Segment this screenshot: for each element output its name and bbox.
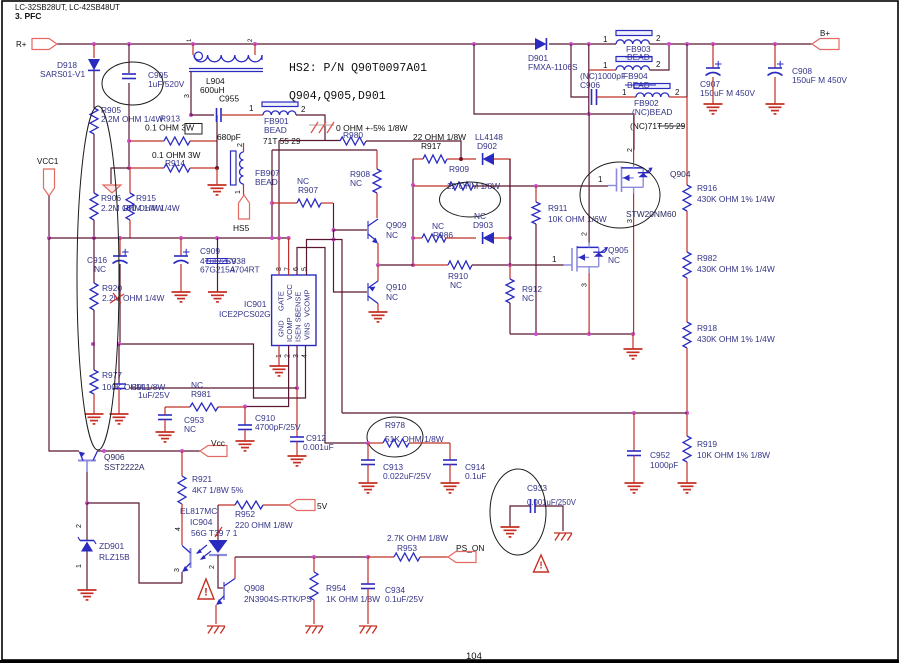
wire Q910 collector up (377, 265, 379, 281)
wire R907 to base column (333, 203, 335, 230)
wire bus to C905 (128, 44, 130, 73)
title model text (15, 3, 120, 12)
label C910 value (255, 422, 301, 432)
svg-text:C955: C955 (219, 94, 239, 104)
capacitor C914 (443, 460, 457, 465)
label C952 (650, 450, 670, 460)
svg-text:3: 3 (582, 283, 589, 287)
svg-text:5V: 5V (317, 501, 328, 511)
label R915 (136, 193, 156, 203)
label PS_ON (456, 543, 484, 553)
svg-text:4K7 1/8W 5%: 4K7 1/8W 5% (192, 485, 244, 495)
wire top bus L904 to D901 (193, 43, 536, 45)
svg-text:2.7K OHM 1/8W: 2.7K OHM 1/8W (387, 533, 448, 543)
wire net y150 (272, 149, 377, 151)
svg-text:1: 1 (598, 175, 603, 184)
wire bus x217 to ground (217, 238, 219, 292)
label R981 (191, 389, 211, 399)
svg-text:3. PFC: 3. PFC (15, 11, 41, 21)
junction VCC1 bus (47, 236, 51, 240)
svg-text:R914: R914 (165, 158, 185, 168)
svg-text:2: 2 (301, 105, 306, 114)
label R905 value (101, 114, 163, 124)
label RLZ15B (99, 552, 130, 562)
wire bus to FB904 (588, 44, 590, 114)
junction bus x181 (179, 236, 183, 240)
wire C910 gnd (244, 430, 246, 442)
label R917 value (413, 132, 466, 142)
label SARS01-V1 (40, 69, 85, 79)
label R920 value (102, 293, 164, 303)
wire pin6 route (297, 248, 368, 444)
svg-text:2: 2 (675, 88, 680, 97)
FB903 core box (616, 31, 652, 36)
wire ZD901 top (86, 503, 88, 540)
wire C953 stub (164, 407, 166, 415)
pin 2 L904 (248, 38, 254, 42)
junction vins x93 (91, 342, 95, 346)
capacitor C909 (174, 249, 190, 264)
label 5V (317, 501, 328, 511)
junction bus x571 (569, 42, 573, 46)
resistor R909 (413, 182, 473, 190)
label R913 value (145, 123, 194, 133)
resistor R911 (532, 186, 540, 224)
capacitor C906 (592, 89, 597, 105)
label R911 (548, 203, 568, 213)
svg-text:IC901: IC901 (244, 299, 267, 309)
svg-text:VINS: VINS (303, 322, 312, 340)
label FB904 BEAD (627, 80, 650, 90)
inductor L904 winding (194, 55, 262, 62)
junction bus L904 pin1 (191, 42, 195, 46)
wire L904 pin2 stub (254, 44, 256, 55)
label 71T 55 29 (263, 136, 301, 146)
wire bus to C906 (571, 44, 589, 97)
pin 3 L904 (184, 94, 191, 98)
wire x272 vertical (271, 150, 273, 238)
svg-text:ICE2PCS02G: ICE2PCS02G (219, 309, 271, 319)
label L904 value (200, 85, 225, 95)
junction R981 C910 (243, 405, 247, 409)
pin 1 FB904 (603, 61, 608, 70)
label R978 (385, 420, 405, 430)
label C952 value (650, 460, 678, 470)
red correction marks R920 (110, 293, 124, 303)
label IC904 (190, 517, 213, 527)
diode D903 (483, 232, 494, 244)
wire pin3 route (296, 346, 298, 389)
wire C910 stub (244, 407, 246, 426)
label C910 (255, 413, 275, 423)
pin name SENSE (294, 292, 303, 317)
wire Q905 drain (588, 114, 590, 242)
label ZD901 (99, 541, 124, 551)
label C913 (383, 462, 403, 472)
svg-text:R954: R954 (326, 583, 346, 593)
resistor R908 (373, 150, 381, 193)
svg-text:R911: R911 (548, 203, 568, 213)
chassis ground C933 (554, 533, 572, 541)
opto light arrows (196, 545, 211, 560)
wire vcc bus (49, 237, 289, 239)
resistor R919 (683, 436, 691, 462)
ferrite bead FB902 (636, 93, 669, 97)
pin 5 (302, 267, 309, 271)
label R918 value (697, 334, 775, 344)
label FB902 NC BEAD (632, 107, 672, 117)
junction bus x713 (711, 42, 715, 46)
wire C905 to R913 node (128, 83, 130, 168)
label R919 value (697, 450, 770, 460)
label R954 value (326, 594, 380, 604)
svg-text:R918: R918 (697, 323, 717, 333)
wire top bus D901 to FB903 (549, 43, 616, 45)
resistor R981 (165, 403, 245, 411)
svg-text:SST2222A: SST2222A (104, 462, 145, 472)
wire bus to C908 (774, 44, 776, 68)
label FB903 BEAD (627, 52, 650, 62)
junction x413 y238 (411, 236, 415, 240)
connector 5V (289, 500, 315, 511)
label R977 value (102, 382, 165, 392)
wire R912 down (509, 303, 511, 334)
ellipse tall around divider (77, 106, 119, 450)
pin name VCOMP (303, 289, 312, 317)
junction bus x775 (773, 42, 777, 46)
wire x687 to R916 (686, 97, 688, 185)
label R954 (326, 583, 346, 593)
C938 strike box (205, 259, 230, 264)
resistor R921 (178, 451, 186, 504)
svg-text:BEAD: BEAD (255, 177, 278, 187)
label R915 value overlap (122, 203, 180, 213)
junction vcc x182 (180, 449, 184, 453)
svg-text:R982: R982 (697, 253, 717, 263)
junction bus x120 (118, 236, 122, 240)
wire R920 wires (93, 238, 95, 283)
svg-text:C933: C933 (527, 483, 547, 493)
wire top bus FB903 to B+ (650, 43, 813, 45)
label C909 code (200, 264, 236, 274)
junction bus x279 (277, 236, 281, 240)
diode D902 (483, 153, 494, 165)
wire to opto emitter (87, 503, 182, 583)
pin 3 Q905 (582, 283, 589, 287)
svg-text:C952: C952 (650, 450, 670, 460)
pin 2 FB902 (675, 88, 680, 97)
resistor R954 (310, 557, 318, 600)
wire pin3 down C912 (296, 388, 298, 437)
pin 4 (302, 354, 309, 358)
ground Q910 (369, 312, 388, 322)
label C938 overlap (226, 256, 246, 266)
svg-text:B+: B+ (820, 29, 830, 38)
label R982 value (697, 264, 775, 274)
ground C911 (110, 414, 129, 424)
wire gate drive horizontal (279, 140, 340, 142)
label R917 (421, 141, 441, 151)
label FB902 (634, 98, 659, 108)
wire drain net (474, 44, 634, 150)
label R919 (697, 439, 717, 449)
pin 3 Q904 (627, 219, 634, 223)
label FMXA-1106S (528, 62, 578, 72)
junction vins x119 (117, 342, 121, 346)
warning triangle Q908 (198, 579, 214, 599)
pin 8 (276, 267, 283, 271)
junction x413 y185 (411, 183, 415, 187)
strike FB904 BEAD (625, 84, 656, 86)
svg-text:2: 2 (627, 148, 634, 152)
pin 7 (285, 267, 292, 271)
capacitor C933 (531, 499, 536, 513)
svg-text:150uF M 450V: 150uF M 450V (792, 75, 847, 85)
pin 1 FB907 (235, 190, 242, 194)
junction bus x588 (587, 42, 591, 46)
wire pin7 stub (288, 238, 290, 275)
chassis ground C934 (359, 626, 377, 634)
pin 2 (285, 354, 292, 358)
junction R911 top (534, 184, 538, 188)
pin 2 Q904 (627, 148, 634, 152)
wire C933 right (535, 506, 563, 531)
junction drain x588 (587, 112, 591, 116)
label FB901 BEAD (264, 125, 287, 135)
junction rail C952 (632, 411, 636, 415)
svg-text:2: 2 (656, 60, 661, 69)
label R906 (101, 193, 121, 203)
svg-text:HS5: HS5 (233, 223, 250, 233)
junction x272 y203 (270, 201, 274, 205)
label NC 1000pF (580, 71, 626, 81)
pin 1 (276, 354, 283, 358)
ground C912 (288, 456, 307, 466)
ferrite bead FB904 (616, 66, 650, 70)
pin 1 FB903 (603, 35, 608, 44)
svg-text:SARS01-V1: SARS01-V1 (40, 69, 85, 79)
label C907 value (700, 88, 755, 98)
label Q908 (244, 583, 265, 593)
junction bus x289 (287, 236, 291, 240)
label Q910 NC (386, 292, 398, 302)
label Q909 (386, 220, 407, 230)
label 0 OHM value (336, 123, 408, 133)
connector Vcc (200, 446, 227, 457)
pin 4 IC904 (175, 527, 182, 531)
svg-text:150uF M 450V: 150uF M 450V (700, 88, 755, 98)
svg-text:VCOMP: VCOMP (303, 289, 312, 317)
wire x687 bus to FB902 (686, 44, 688, 97)
label R978 value (385, 434, 444, 444)
wire R986 to D903 (446, 237, 476, 239)
label Q905 (608, 245, 629, 255)
ellipse around C905 (102, 62, 163, 105)
svg-text:2: 2 (76, 524, 83, 528)
junction bus x669 (667, 42, 671, 46)
resistor R914 (129, 164, 217, 172)
wire collector net (235, 556, 368, 558)
opto transistor IC904 (182, 546, 191, 573)
label B+ (820, 29, 830, 38)
wire C908 to ground (774, 77, 776, 104)
pin 1 ZD901 (76, 564, 83, 568)
pin 1 Q905 (552, 255, 557, 264)
wire x217 vertical (216, 115, 218, 168)
ferrite bead FB901 (263, 111, 296, 115)
wire FB904 pin1 lead (589, 69, 616, 71)
resistor R986 (413, 234, 446, 242)
label STW20NM60 (626, 209, 677, 219)
wire C906 to FB902 (597, 96, 637, 98)
svg-text:D902: D902 (477, 141, 497, 151)
ground IC901 pin1 (270, 366, 289, 376)
label IC901 (244, 299, 267, 309)
label C911 value (138, 390, 170, 400)
svg-text:0.022uF/25V: 0.022uF/25V (383, 471, 431, 481)
label R909 value (447, 181, 500, 191)
note HS2 part number (289, 62, 427, 75)
wire x510 vertical (509, 159, 511, 265)
junction base x333 y230 (332, 228, 336, 232)
wire Q910 emitter to ground (377, 304, 379, 313)
svg-text:NC: NC (350, 178, 362, 188)
ground C913 (359, 483, 378, 493)
label C955 (219, 94, 239, 104)
pin 2 FB903 (656, 34, 661, 43)
junction x510 y238 (508, 236, 512, 240)
capacitor C908 (768, 61, 784, 76)
wire bus to D918 (93, 44, 95, 58)
svg-text:Q910: Q910 (386, 282, 407, 292)
FB902 core box (634, 84, 670, 89)
label C909 value (200, 256, 237, 266)
label LL4148 (475, 132, 503, 142)
svg-text:RLZ15B: RLZ15B (99, 552, 130, 562)
capacitor C912 (290, 437, 304, 442)
label Q906 (104, 452, 125, 462)
label Vcc (211, 438, 225, 448)
svg-text:430K OHM 1% 1/4W: 430K OHM 1% 1/4W (697, 264, 775, 274)
svg-text:NC: NC (522, 293, 534, 303)
svg-text:Q904,Q905,D901: Q904,Q905,D901 (289, 90, 386, 103)
label Q910 (386, 282, 407, 292)
label Q904 (670, 169, 691, 179)
wire pin3 to C911 (130, 387, 297, 389)
label R913 overlap (160, 114, 180, 124)
wire left rail down to Q906 (49, 238, 79, 451)
svg-text:1: 1 (249, 104, 254, 113)
junction emitter x377 (376, 263, 380, 267)
pin name GND (277, 320, 286, 337)
label SST2222A (104, 462, 145, 472)
wire D903 right (494, 237, 510, 239)
svg-text:IC904: IC904 (190, 517, 213, 527)
wire FB907 to HS5 (243, 184, 245, 195)
svg-text:!: ! (539, 561, 542, 572)
label C938 value overlap (230, 264, 260, 274)
svg-text:1: 1 (235, 190, 242, 194)
junction base x333 y239 (332, 238, 336, 242)
svg-text:Q906: Q906 (104, 452, 125, 462)
svg-text:NC: NC (386, 230, 398, 240)
ground C910 (236, 441, 255, 451)
svg-text:5: 5 (302, 267, 309, 271)
page number 104 (466, 651, 482, 662)
label R907 NC (297, 176, 309, 186)
ground ZD901 (78, 590, 97, 600)
svg-text:VCC1: VCC1 (37, 157, 59, 166)
zener diode ZD901 (78, 537, 96, 552)
wire R980 to R917 (366, 141, 461, 159)
junction bus x129 (127, 42, 131, 46)
label R912 (522, 284, 542, 294)
svg-text:2: 2 (209, 565, 216, 569)
label C906 (580, 80, 600, 90)
wire Vcc net (98, 450, 201, 452)
wire VCC1 to vcc bus (48, 196, 50, 238)
svg-text:56G T39 7 1: 56G T39 7 1 (191, 528, 238, 538)
pin 1 FB902 (622, 88, 627, 97)
svg-text:1: 1 (603, 35, 608, 44)
ground C908 (766, 104, 785, 114)
transistor Q905 MOSFET (564, 242, 609, 273)
wire R911 down (535, 224, 537, 334)
pin name GATE (277, 291, 286, 311)
capacitor C913 (361, 460, 375, 465)
label R982 (697, 253, 717, 263)
resistor R916 (683, 185, 691, 211)
svg-text:R952: R952 (235, 509, 255, 519)
label C905 value (148, 79, 185, 89)
pin 3 IC904 (174, 568, 181, 572)
label C913 value (383, 471, 431, 481)
junction x129 y168 (127, 166, 131, 170)
label R981 NC (191, 380, 203, 390)
arrow symbol net down (103, 185, 121, 193)
jumper strike marks (309, 122, 334, 133)
strike FB903 BEAD (625, 56, 652, 58)
capacitor C905 (122, 74, 136, 79)
transistor Q910 (368, 281, 378, 304)
junction x129 y141 (127, 139, 131, 143)
connector VCC1 (44, 169, 55, 196)
connector HS5 (239, 195, 250, 219)
resistor R982 (683, 252, 691, 278)
wire C953 gnd (164, 420, 166, 433)
label VCC1 (37, 157, 59, 166)
ground R919 (678, 483, 697, 493)
resistor R907 (272, 199, 333, 207)
ellipse around R909 NC (440, 182, 501, 217)
junction R917 D902 (459, 157, 463, 161)
wire FB901 pin2 (296, 115, 325, 141)
wire Q909 emitter down (377, 243, 379, 265)
label D903 (473, 220, 493, 230)
junction rail x536 (534, 332, 538, 336)
ground C938 (208, 292, 227, 302)
svg-text:10K OHM 1% 1/8W: 10K OHM 1% 1/8W (697, 450, 770, 460)
wire Q904 source (633, 193, 635, 334)
label D901 (528, 53, 548, 63)
label 2N3904S (244, 594, 312, 604)
resistor R917 (413, 155, 447, 163)
wire R982 to R918 (686, 278, 688, 322)
wire Q908 collector (234, 557, 236, 579)
svg-text:2N3904S-RTK/PS: 2N3904S-RTK/PS (244, 594, 312, 604)
label C934 value (385, 594, 424, 604)
junction bus x217 (215, 236, 219, 240)
